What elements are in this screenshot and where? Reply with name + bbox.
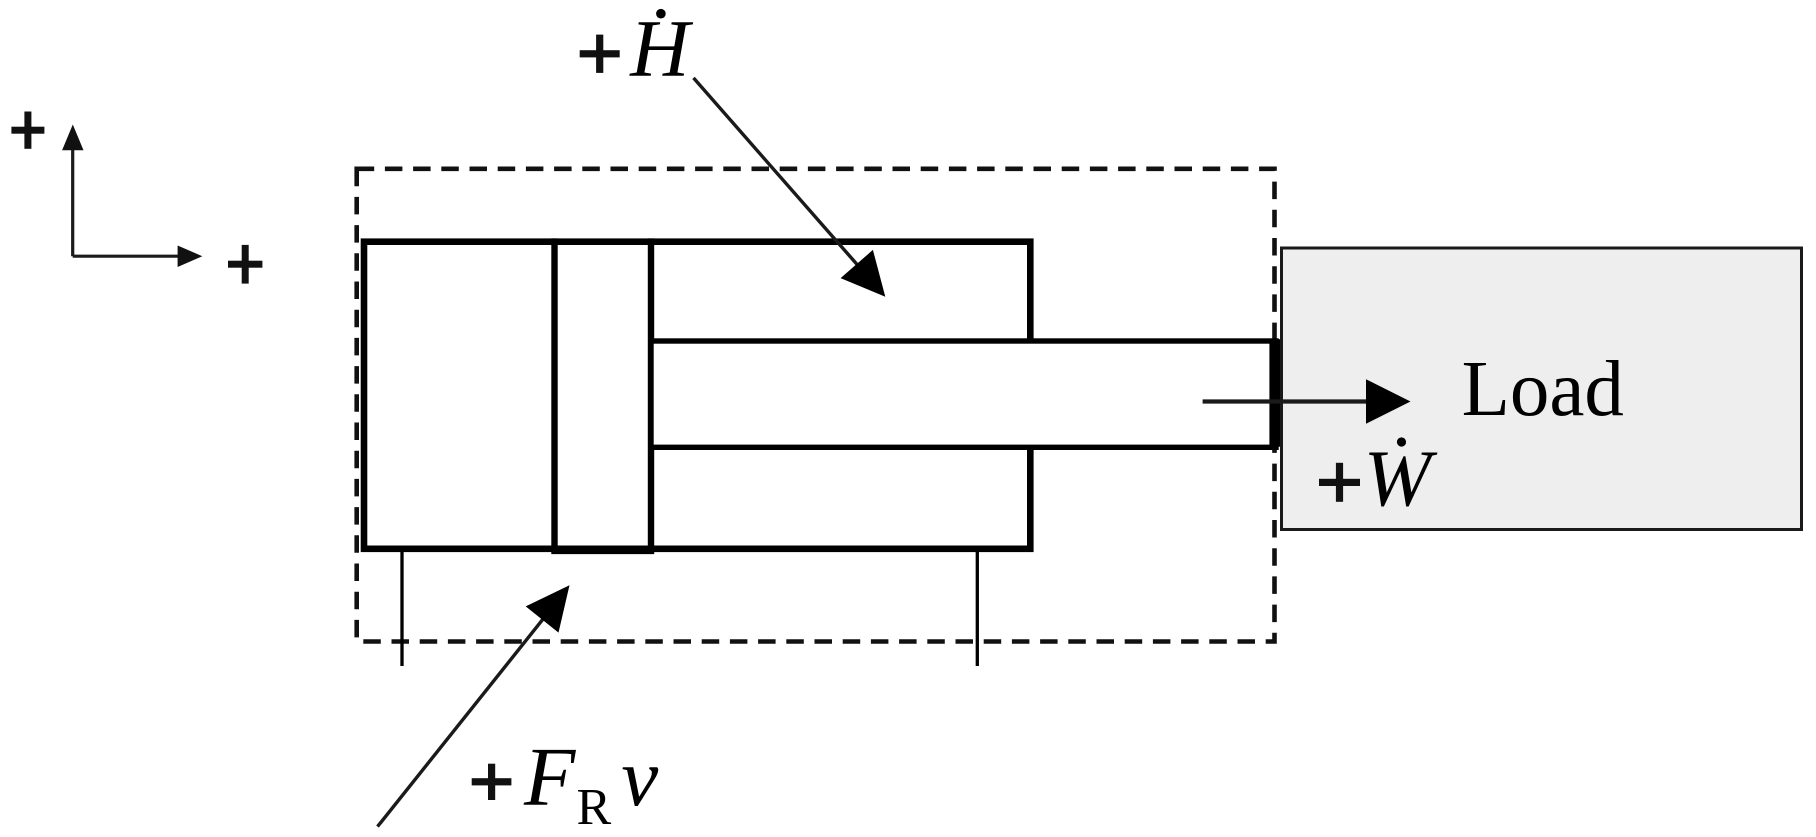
svg-text:F: F: [523, 731, 577, 824]
coordinate axes vertical arrow: [62, 125, 83, 257]
coordinate axes horizontal arrow: [73, 246, 203, 268]
svg-text:Load: Load: [1462, 346, 1624, 433]
svg-text:R: R: [577, 779, 612, 836]
svg-text:W: W: [1364, 434, 1438, 524]
svg-text:v: v: [621, 731, 658, 823]
arrow from +FRv to cylinder base: [378, 585, 570, 826]
rod end cap: [1269, 339, 1283, 447]
piston left face: [551, 238, 557, 552]
load block: [1282, 248, 1802, 530]
dashed system boundary: [357, 169, 1275, 642]
label +H-dot (enthalpy flow): [580, 3, 694, 94]
sign convention plus (right of x axis): [228, 245, 262, 284]
label +F_R v (friction work): [472, 731, 659, 836]
label +W-dot (work flow): [1319, 434, 1438, 524]
right support leg: [976, 552, 979, 666]
sign convention plus (upper left): [11, 112, 44, 149]
velocity arrow toward load: [1203, 379, 1411, 424]
arrow from +H-dot into cylinder: [694, 78, 886, 297]
left support leg: [400, 552, 403, 666]
piston right face: [648, 238, 654, 552]
cylinder body: [364, 242, 1030, 549]
piston rod: [651, 341, 1276, 447]
piston bottom seal edge: [551, 546, 654, 554]
